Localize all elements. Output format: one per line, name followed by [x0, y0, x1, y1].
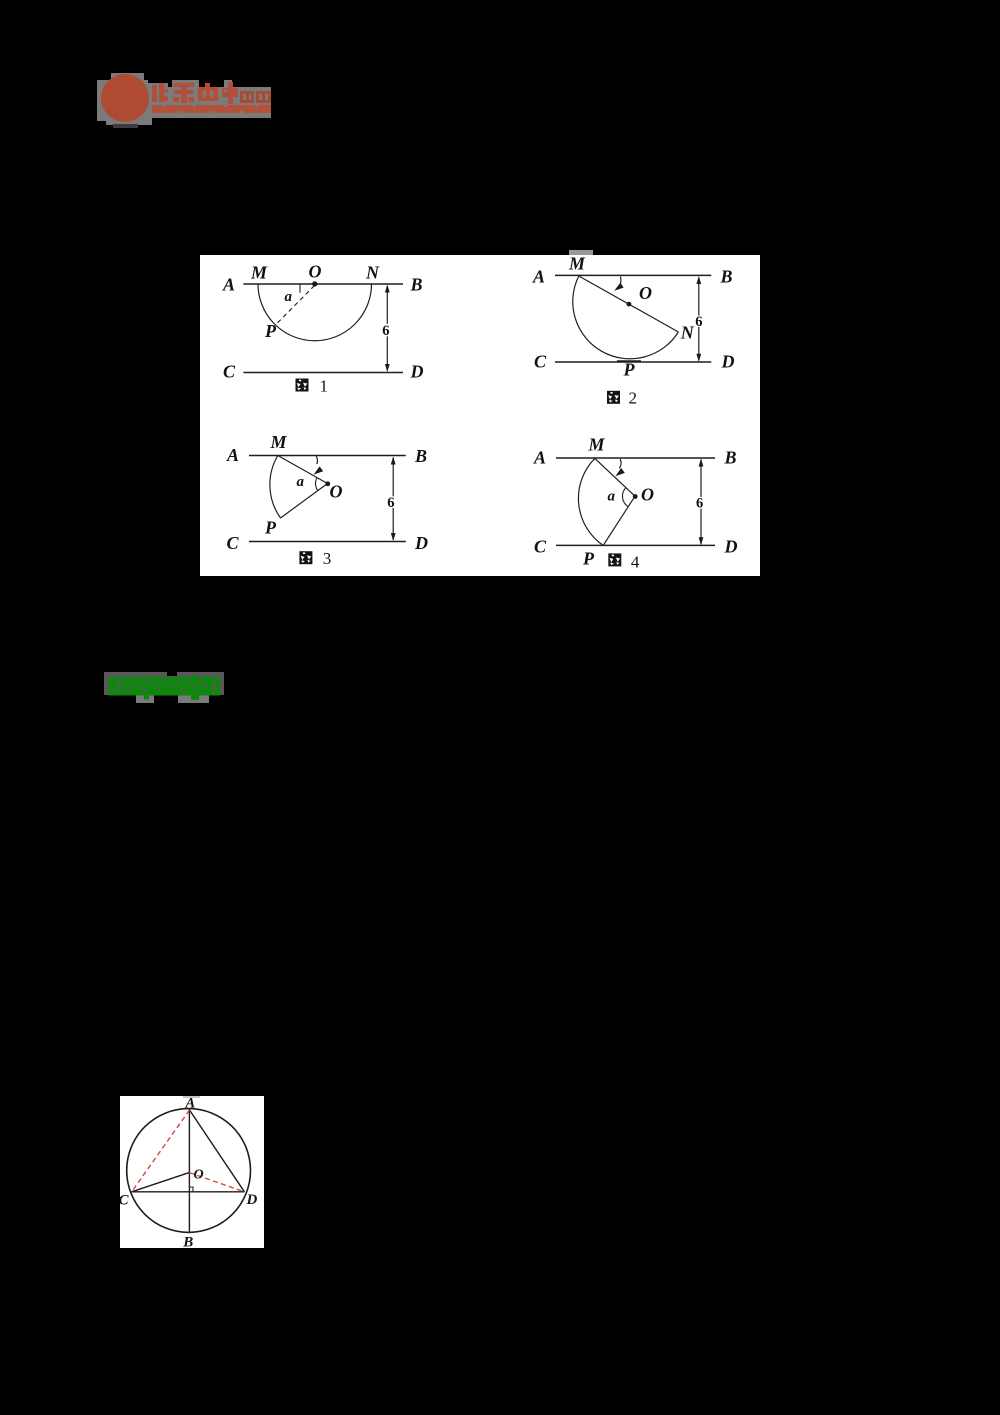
logo band top notches (black) — [148, 80, 168, 83]
green label gray band — [104, 672, 224, 695]
svg-text:A: A — [185, 1096, 196, 1112]
fig4 angle arc at O — [622, 488, 628, 507]
fig4 line CD — [556, 544, 715, 546]
svg-text:O: O — [194, 1168, 204, 1183]
svg-text:C: C — [223, 362, 236, 382]
logo gray bottom strip — [106, 121, 152, 125]
fig4 arc MP — [578, 458, 603, 545]
svg-text:P: P — [623, 360, 636, 380]
fig1 dot O — [312, 281, 317, 286]
svg-text:A: A — [222, 275, 235, 295]
fig2 measure arrow line — [698, 278, 700, 361]
logo red url bar — [152, 105, 271, 114]
green label light gray bottom 1 — [136, 695, 154, 703]
svg-text:a: a — [285, 289, 293, 305]
captions — [296, 379, 309, 392]
logo band bottom trim (black) — [152, 118, 271, 121]
fig1 dashed radius OP — [275, 286, 315, 326]
circle O — [127, 1109, 251, 1233]
white gaps for 6 labels — [382, 316, 705, 509]
fig1 line CD — [243, 372, 403, 374]
fig2 angle arrowhead — [614, 283, 623, 291]
svg-text:6: 6 — [382, 323, 389, 339]
fig3 radius OP — [281, 484, 328, 519]
fig2 dot O — [627, 302, 632, 307]
svg-text:O: O — [309, 262, 322, 282]
fig3 angle arc at O — [315, 478, 317, 491]
fig2 line CD — [555, 361, 711, 363]
red dashed O to D — [189, 1173, 244, 1192]
fig3 radius MO — [278, 456, 328, 484]
fig3 angle arrow tail — [316, 456, 317, 464]
svg-text:a: a — [297, 474, 305, 490]
svg-text:M: M — [568, 255, 586, 274]
fig3 angle arrowhead — [314, 466, 324, 474]
svg-text:4: 4 — [631, 553, 640, 572]
green label band notch — [167, 672, 177, 677]
svg-text:O: O — [639, 283, 652, 303]
fig4 arrowheads — [699, 459, 704, 467]
svg-text:6: 6 — [387, 495, 394, 511]
svg-text:3: 3 — [323, 549, 332, 568]
fig4 measure arrow line — [700, 460, 702, 545]
svg-text:M: M — [270, 432, 288, 452]
svg-text:A: A — [532, 267, 545, 287]
fig3 arrowheads — [391, 457, 396, 465]
fig4 radius OP — [603, 496, 635, 545]
logo dark strip under circle — [113, 124, 138, 128]
svg-text:C: C — [534, 537, 547, 557]
fig4 angle arrowhead — [615, 468, 624, 476]
gray patch above fig2 M — [569, 250, 593, 255]
svg-text:D: D — [414, 533, 428, 553]
fig2 arrowheads — [696, 276, 701, 284]
svg-text:D: D — [410, 362, 424, 382]
gray streak above A label — [183, 1096, 200, 1098]
svg-text:B: B — [724, 448, 737, 468]
svg-text:2: 2 — [629, 389, 638, 408]
fig2 angle arrow tail — [618, 277, 621, 289]
logo red chinese characters (blobs) — [150, 82, 272, 106]
line C to O — [132, 1173, 190, 1192]
fig2 diameter MN — [579, 276, 679, 332]
svg-text:D: D — [724, 537, 738, 557]
fig3 line AB — [249, 455, 406, 457]
logo red circle — [101, 74, 149, 122]
svg-text:D: D — [721, 352, 735, 372]
fig1 measure arrow line — [386, 286, 388, 371]
fig2 tangent thick bit at P — [617, 360, 641, 362]
svg-text:B: B — [182, 1235, 193, 1249]
svg-text:B: B — [410, 275, 423, 295]
fig4 line AB — [556, 457, 715, 459]
fig1 alpha tick at O — [299, 284, 301, 293]
svg-text:M: M — [588, 435, 606, 455]
line A to D — [190, 1110, 245, 1192]
svg-text:P: P — [582, 549, 595, 569]
svg-text:P: P — [264, 321, 277, 341]
svg-text:N: N — [365, 263, 380, 283]
svg-text:a: a — [608, 489, 616, 505]
svg-text:C: C — [534, 352, 547, 372]
fig3 measure arrow line — [392, 458, 394, 540]
fig2 circle arc MPN — [573, 276, 679, 359]
svg-text:B: B — [414, 446, 427, 466]
logo gray backdrop band — [97, 80, 271, 121]
fig3 line CD — [249, 541, 406, 543]
chord CD — [132, 1191, 245, 1193]
fig4 radius MO — [595, 458, 635, 496]
fig4 angle arrow tail — [619, 459, 621, 468]
svg-text:O: O — [330, 482, 343, 502]
fig3 dot O — [325, 481, 330, 486]
svg-text:P: P — [264, 518, 277, 538]
fig4 dot O — [633, 494, 638, 499]
svg-text:A: A — [533, 448, 546, 468]
svg-text:N: N — [680, 323, 695, 343]
svg-text:1: 1 — [320, 377, 329, 396]
svg-text:A: A — [226, 445, 239, 465]
svg-text:D: D — [246, 1192, 258, 1208]
fig2 line AB — [555, 274, 711, 276]
right angle mark — [189, 1187, 193, 1192]
svg-text:B: B — [720, 267, 733, 287]
svg-text:6: 6 — [696, 496, 703, 512]
fig1 arrowheads — [385, 285, 390, 293]
diameter AB vertical — [188, 1109, 190, 1233]
svg-text:O: O — [641, 485, 654, 505]
fig3 arc MP — [270, 456, 281, 519]
red dashed A to C — [132, 1110, 190, 1192]
green label text blobs 【模拟试题】 — [108, 675, 222, 701]
svg-text:M: M — [250, 263, 268, 283]
svg-text:C: C — [227, 533, 240, 553]
green label light gray bottom 2 — [178, 695, 210, 703]
logo gray top tab above circle — [111, 73, 144, 80]
svg-text:C: C — [120, 1193, 130, 1209]
fig1 semicircle MN — [258, 284, 372, 341]
svg-text:6: 6 — [695, 314, 702, 330]
fig1 line AB — [243, 283, 403, 285]
